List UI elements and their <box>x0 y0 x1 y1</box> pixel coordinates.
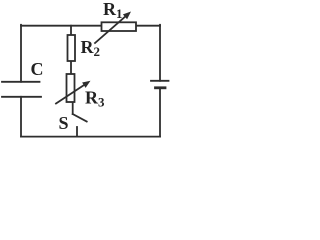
arrow shaft of R3 <box>56 84 86 104</box>
wire bottom <box>21 136 160 138</box>
resistor R1 body <box>102 22 137 31</box>
resistor R2 body <box>68 35 76 61</box>
arrow shaft of R1 <box>95 15 127 43</box>
svg-text:S: S <box>59 113 69 133</box>
wire R3 to switch contact <box>72 102 74 114</box>
svg-text:R3: R3 <box>85 88 105 110</box>
wire top-right segment <box>136 25 160 27</box>
resistor R3 body <box>67 74 75 102</box>
wire right upper <box>159 25 161 81</box>
wire middle branch top <box>70 26 72 35</box>
switch bottom contact stub <box>76 127 78 137</box>
wire left upper <box>20 25 22 82</box>
svg-text:R1: R1 <box>103 0 123 21</box>
wire right lower <box>159 88 161 137</box>
arrowhead of R3 <box>82 81 90 88</box>
switch S blade <box>73 114 87 122</box>
wire left lower <box>20 97 22 137</box>
capacitor C top plate <box>2 81 40 83</box>
svg-text:C: C <box>31 59 44 79</box>
capacitor C bottom plate <box>2 96 41 98</box>
wire top-left segment <box>21 25 102 27</box>
arrowhead of R1 <box>123 12 131 20</box>
battery long plate <box>151 80 169 82</box>
wire between R2 and R3 <box>70 61 72 74</box>
battery short plate <box>156 86 166 89</box>
